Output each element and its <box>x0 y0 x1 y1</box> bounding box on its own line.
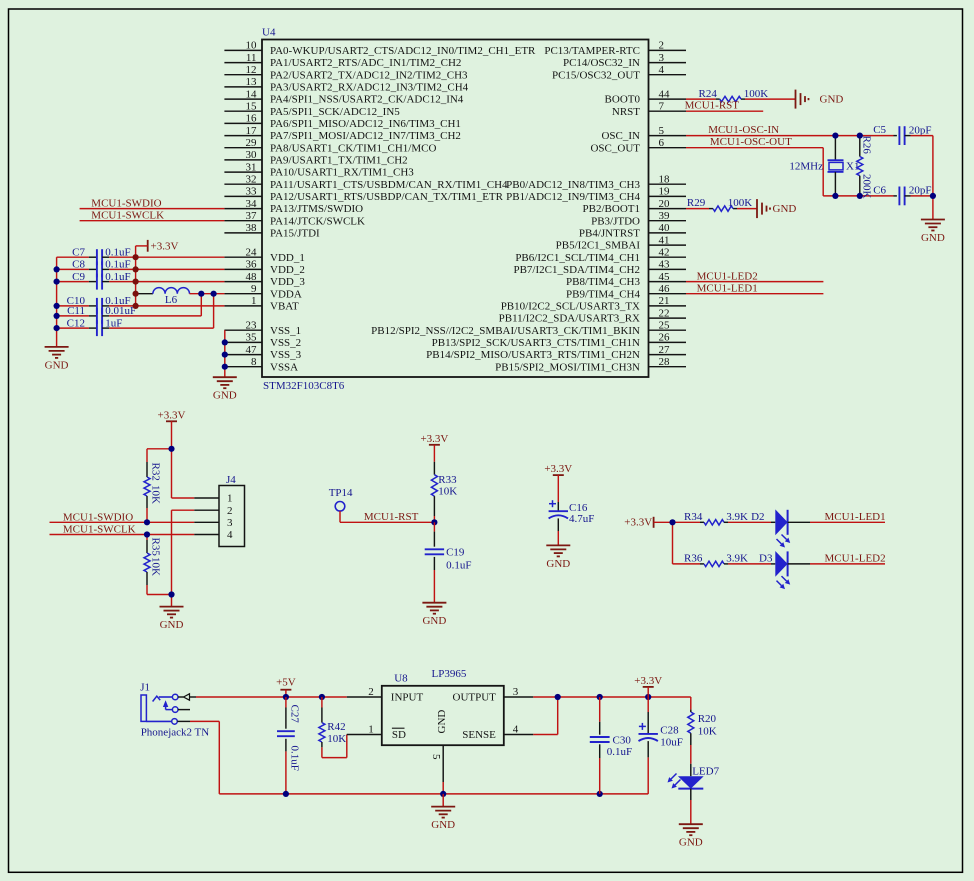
svg-text:5: 5 <box>430 754 442 760</box>
capacitor C8 <box>57 259 131 278</box>
svg-text:PB5/I2C1_SMBAI: PB5/I2C1_SMBAI <box>556 240 641 252</box>
wire net MCU1-LED2 (D3 output) <box>810 552 886 564</box>
svg-text:PB12/SPI2_NSS//I2C2_SMBAI/USAR: PB12/SPI2_NSS//I2C2_SMBAI/USART3_CK/TIM1… <box>371 325 640 337</box>
resistor R32 <box>144 449 162 523</box>
resistor R29 <box>687 197 752 212</box>
svg-text:36: 36 <box>246 259 258 271</box>
svg-text:J1: J1 <box>140 682 150 694</box>
junction gnd bus <box>54 303 60 309</box>
ground symbol (LED7) <box>679 824 703 849</box>
svg-text:LED7: LED7 <box>692 766 719 778</box>
U8 pin 2 (INPUT) <box>347 686 424 704</box>
U4 pin 2 (PC13) <box>544 40 686 57</box>
wire net MCU1-OSC-OUT <box>686 136 894 196</box>
svg-text:C7: C7 <box>72 246 85 258</box>
svg-text:22: 22 <box>659 307 670 319</box>
svg-text:30: 30 <box>246 149 258 161</box>
svg-text:GND: GND <box>160 619 184 631</box>
svg-text:D3: D3 <box>759 552 773 564</box>
U4 pin 33 (PA12) <box>224 186 503 203</box>
svg-text:28: 28 <box>659 356 671 368</box>
svg-text:18: 18 <box>659 173 671 185</box>
svg-text:D2: D2 <box>751 511 764 523</box>
svg-text:PC13/TAMPER-RTC: PC13/TAMPER-RTC <box>544 45 640 57</box>
svg-text:R26: R26 <box>861 136 873 155</box>
svg-text:MCU1-RST: MCU1-RST <box>364 511 419 523</box>
U4 pin 9 (VDDA) <box>224 283 301 300</box>
svg-text:7: 7 <box>659 100 665 112</box>
capacitor C30 <box>590 697 632 794</box>
U4 pin 46 (PB9) <box>566 283 686 300</box>
svg-text:34: 34 <box>246 198 258 210</box>
svg-text:27: 27 <box>659 344 671 356</box>
svg-text:48: 48 <box>246 271 258 283</box>
svg-text:PA15/JTDI: PA15/JTDI <box>270 228 320 240</box>
svg-text:OSC_IN: OSC_IN <box>601 130 640 142</box>
wire net MCU1-SWCLK (PA14) <box>80 210 225 222</box>
U8 pin 3 (OUTPUT) <box>453 686 534 704</box>
U4 pin 32 (PA11) <box>224 173 508 190</box>
wire osc caps to ground <box>911 136 933 220</box>
svg-text:C6: C6 <box>873 185 886 197</box>
ground symbol (BOOT0 pulldown) <box>796 90 844 109</box>
svg-text:VDD_1: VDD_1 <box>270 252 305 264</box>
svg-text:4.7uF: 4.7uF <box>569 513 594 525</box>
U4 pin 8 (VSSA) <box>224 356 298 373</box>
U4 pin 26 (PB13) <box>432 332 686 349</box>
svg-text:R29: R29 <box>687 197 706 209</box>
svg-text:11: 11 <box>246 52 257 64</box>
U4 pin 23 (VSS_1) <box>224 319 301 336</box>
junction C27 / rail <box>283 791 289 797</box>
ground symbol (J4) <box>160 607 184 632</box>
svg-text:39: 39 <box>659 210 671 222</box>
wire VDD_3 row <box>109 281 224 283</box>
svg-text:35: 35 <box>246 332 258 344</box>
U4 pin 24 (VDD_1) <box>224 246 304 263</box>
U4 pin 35 (VSS_2) <box>224 332 301 349</box>
svg-text:+5V: +5V <box>276 676 296 688</box>
svg-text:20: 20 <box>659 198 671 210</box>
ground symbol (C16) <box>546 545 570 570</box>
junction +3.3V bus <box>133 303 139 309</box>
svg-text:PB9/TIM4_CH4: PB9/TIM4_CH4 <box>566 288 640 300</box>
svg-text:U8: U8 <box>394 673 408 685</box>
U4 pin 47 (VSS_3) <box>224 344 301 361</box>
svg-text:29: 29 <box>246 137 258 149</box>
junction C30 / rail <box>597 791 603 797</box>
crystal X1 12MHz <box>789 136 859 196</box>
junction gnd bus <box>54 279 60 285</box>
power symbol +3.3V (regulator output) <box>634 675 662 697</box>
svg-text:BOOT0: BOOT0 <box>605 94 641 106</box>
svg-text:VBAT: VBAT <box>270 301 299 313</box>
junction gnd bus <box>54 325 60 331</box>
U4 pin 41 (PB5) <box>556 234 686 251</box>
svg-text:MCU1-LED1: MCU1-LED1 <box>697 283 758 295</box>
svg-text:R36: R36 <box>684 552 703 564</box>
capacitor C6 <box>873 185 931 206</box>
capacitor C5 <box>873 124 931 145</box>
U4 pin 17 (PA7) <box>224 125 461 142</box>
wire +5V input row <box>196 696 347 698</box>
junction R42 top <box>319 694 325 700</box>
resistor R35 <box>144 535 172 595</box>
svg-text:SENSE: SENSE <box>462 729 496 741</box>
U4 pin 22 (PB11) <box>499 307 686 324</box>
wire VDD_1 row <box>109 256 224 258</box>
junction +3.3V bus <box>133 266 139 272</box>
U4 pin 25 (PB12) <box>371 319 686 336</box>
U8 pin 4 (SENSE) <box>462 724 533 741</box>
U4 pin 48 (VDD_3) <box>224 271 305 288</box>
svg-text:TP14: TP14 <box>329 487 353 499</box>
U4 pin 45 (PB8) <box>566 271 686 288</box>
svg-text:PA0-WKUP/USART2_CTS/ADC12_IN0/: PA0-WKUP/USART2_CTS/ADC12_IN0/TIM2_CH1_E… <box>270 45 536 57</box>
svg-text:PA10/USART1_RX/TIM1_CH3: PA10/USART1_RX/TIM1_CH3 <box>270 167 414 179</box>
svg-text:R33: R33 <box>438 474 457 486</box>
svg-text:14: 14 <box>246 88 258 100</box>
svg-text:C8: C8 <box>72 259 85 271</box>
svg-text:MCU1-SWCLK: MCU1-SWCLK <box>91 210 164 222</box>
U4 pin 11 (PA1) <box>224 52 461 69</box>
svg-text:R42: R42 <box>327 721 345 733</box>
svg-text:J4: J4 <box>226 474 236 486</box>
wire +3.3V to J4 pin1 and R32 <box>147 421 194 498</box>
svg-text:PB1/ADC12_IN9/TIM3_CH4: PB1/ADC12_IN9/TIM3_CH4 <box>506 191 640 203</box>
svg-text:GND: GND <box>820 94 844 106</box>
svg-text:R32: R32 <box>150 463 162 481</box>
U4 pin 30 (PA9) <box>224 149 407 166</box>
svg-text:3: 3 <box>513 686 519 698</box>
svg-text:5: 5 <box>659 125 665 137</box>
U4 pin 40 (PB4) <box>579 222 686 239</box>
svg-text:100K: 100K <box>744 88 769 100</box>
connector J4 <box>194 474 244 547</box>
wire +3.3V to R33 <box>433 445 435 462</box>
connector J1 (phone jack) <box>140 682 209 739</box>
U4 pin 3 (PC14) <box>563 52 686 69</box>
LED LED7 <box>668 764 720 800</box>
svg-text:GND: GND <box>213 390 237 402</box>
svg-text:0.1uF: 0.1uF <box>289 746 301 771</box>
U4 pin 4 (PC15) <box>552 64 686 81</box>
inductor L6 <box>136 288 225 306</box>
junction osc-in / crystal <box>832 133 838 139</box>
resistor R42 <box>319 697 347 758</box>
svg-text:R24: R24 <box>699 88 718 100</box>
svg-text:PA6/SPI1_MISO/ADC12_IN6/TIM3_C: PA6/SPI1_MISO/ADC12_IN6/TIM3_CH1 <box>270 118 461 130</box>
resistor R36 <box>684 552 771 566</box>
svg-text:GND: GND <box>436 710 448 734</box>
svg-text:PB15/SPI2_MOSI/TIM1_CH3N: PB15/SPI2_MOSI/TIM1_CH3N <box>495 361 640 373</box>
U4 pin 1 (VBAT) <box>224 295 299 312</box>
svg-text:L6: L6 <box>165 294 178 306</box>
U4 pin 28 (PB15) <box>495 356 686 373</box>
U4 pin 36 (VDD_2) <box>224 259 304 276</box>
svg-text:10K: 10K <box>327 733 346 745</box>
capacitor C16 (polarized) <box>549 475 595 545</box>
svg-text:10K: 10K <box>150 485 162 504</box>
svg-text:Phonejack2 TN: Phonejack2 TN <box>141 727 210 739</box>
U4 pin 19 (PB1) <box>506 186 686 203</box>
svg-text:13: 13 <box>246 76 258 88</box>
svg-text:VSS_2: VSS_2 <box>270 337 301 349</box>
ground symbol (C19) <box>422 603 446 628</box>
U4 pin 6 (OSC_OUT) <box>590 137 686 154</box>
wire net MCU1-SWCLK (J4) <box>50 524 195 536</box>
U4 pin 39 (PB3) <box>591 210 686 227</box>
svg-text:+3.3V: +3.3V <box>151 241 179 253</box>
svg-text:19: 19 <box>659 186 671 198</box>
wire net MCU1-LED2 (PB8) <box>686 270 823 282</box>
svg-text:GND: GND <box>431 819 455 831</box>
svg-text:4: 4 <box>513 724 519 736</box>
svg-text:VSSA: VSSA <box>270 361 298 373</box>
junction C30 top <box>597 694 603 700</box>
resistor R20 <box>688 697 717 764</box>
junction +3.3V / C28 <box>645 694 651 700</box>
capacitor C9 <box>57 271 131 290</box>
svg-text:MCU1-SWCLK: MCU1-SWCLK <box>63 524 136 536</box>
svg-text:12MHz: 12MHz <box>789 161 823 173</box>
svg-text:PA1/USART2_RTS/ADC_IN1/TIM2_CH: PA1/USART2_RTS/ADC_IN1/TIM2_CH2 <box>270 57 461 69</box>
svg-text:GND: GND <box>45 359 69 371</box>
ground symbol (VSS) <box>213 377 237 402</box>
junction +5V / C27 <box>283 694 289 700</box>
svg-text:32: 32 <box>246 173 257 185</box>
svg-text:PB13/SPI2_SCK/USART3_CTS/TIM1_: PB13/SPI2_SCK/USART3_CTS/TIM1_CH1N <box>432 337 640 349</box>
LED D2 <box>751 509 810 547</box>
svg-text:INPUT: INPUT <box>391 692 424 704</box>
svg-text:9: 9 <box>251 283 257 295</box>
junction SWDIO / R32 <box>144 519 150 525</box>
svg-text:PC15/OSC32_OUT: PC15/OSC32_OUT <box>552 69 640 81</box>
svg-text:C5: C5 <box>873 124 886 136</box>
capacitor C19 <box>425 522 472 602</box>
wire net BOOT0 <box>686 98 796 100</box>
wire gnd bus (left) <box>56 257 58 347</box>
wire net MCU1-SWDIO (J4) <box>50 511 195 523</box>
svg-text:PA12/USART1_RTS/USBDP/CAN_TX/T: PA12/USART1_RTS/USBDP/CAN_TX/TIM1_ETR <box>270 191 504 203</box>
junction osc-out / crystal <box>832 193 838 199</box>
svg-text:PB2/BOOT1: PB2/BOOT1 <box>583 203 640 215</box>
wire J1 sleeve to ground rail <box>190 721 219 794</box>
junction VSSA <box>222 364 228 370</box>
svg-text:GND: GND <box>422 615 446 627</box>
svg-text:PB7/I2C1_SDA/TIM4_CH2: PB7/I2C1_SDA/TIM4_CH2 <box>513 264 640 276</box>
svg-text:100K: 100K <box>728 197 753 209</box>
svg-text:41: 41 <box>659 234 670 246</box>
svg-text:24: 24 <box>246 246 258 258</box>
test point TP14 <box>329 487 353 511</box>
svg-text:OSC_OUT: OSC_OUT <box>590 142 640 154</box>
svg-text:C19: C19 <box>446 547 465 559</box>
svg-text:VDD_2: VDD_2 <box>270 264 305 276</box>
junction sense/output <box>555 694 561 700</box>
svg-text:12: 12 <box>246 64 257 76</box>
svg-text:GND: GND <box>679 837 703 849</box>
svg-text:38: 38 <box>246 222 258 234</box>
U4 pin 29 (PA8) <box>224 137 436 154</box>
power symbol +3.3V (LEDs) <box>624 516 653 528</box>
resistor R33 <box>431 462 457 523</box>
capacitor C27 <box>277 697 301 794</box>
junction U8 gnd / rail <box>440 791 446 797</box>
svg-text:U4: U4 <box>262 27 276 39</box>
junction +3.3V bus <box>133 291 139 297</box>
wire ground rail <box>219 793 648 795</box>
power symbol +3.3V (R33) <box>420 433 448 445</box>
svg-text:31: 31 <box>246 161 257 173</box>
svg-text:PB8/TIM4_CH3: PB8/TIM4_CH3 <box>566 276 640 288</box>
U4 pin 20 (PB2) <box>583 198 686 215</box>
junction VSS_2 <box>222 339 228 345</box>
svg-text:43: 43 <box>659 259 671 271</box>
svg-text:42: 42 <box>659 246 670 258</box>
wire VDD_2 row <box>109 268 224 270</box>
wire +3.3V bus <box>136 246 148 306</box>
svg-text:PA3/USART2_RX/ADC12_IN3/TIM2_C: PA3/USART2_RX/ADC12_IN3/TIM2_CH4 <box>270 82 469 94</box>
svg-text:PB0/ADC12_IN8/TIM3_CH3: PB0/ADC12_IN8/TIM3_CH3 <box>506 179 640 191</box>
svg-text:VDDA: VDDA <box>270 288 302 300</box>
junction osc-in / R26 <box>857 133 863 139</box>
junction VDDA / C11 riser <box>198 291 204 297</box>
svg-text:+3.3V: +3.3V <box>544 463 572 475</box>
resistor R26 <box>857 136 873 199</box>
capacitor C12 <box>57 317 123 336</box>
ground symbol (U8) <box>431 794 455 831</box>
svg-text:PB11/I2C2_SDA/USART3_RX: PB11/I2C2_SDA/USART3_RX <box>499 313 640 325</box>
svg-text:10K: 10K <box>438 486 457 498</box>
power symbol +5V <box>276 676 296 697</box>
svg-text:PC14/OSC32_IN: PC14/OSC32_IN <box>563 57 640 69</box>
svg-text:VSS_1: VSS_1 <box>270 325 301 337</box>
svg-text:4: 4 <box>659 64 665 76</box>
U4 pin 34 (PA13) <box>224 198 363 215</box>
svg-text:46: 46 <box>659 283 671 295</box>
power symbol +3.3V (C16) <box>544 463 572 475</box>
junction gnd bus <box>54 313 60 319</box>
svg-text:33: 33 <box>246 186 258 198</box>
svg-text:OUTPUT: OUTPUT <box>453 692 497 704</box>
svg-text:23: 23 <box>246 319 258 331</box>
svg-text:GND: GND <box>546 558 570 570</box>
svg-text:R20: R20 <box>698 713 717 725</box>
svg-text:PA8/USART1_CK/TIM1_CH1/MCO: PA8/USART1_CK/TIM1_CH1/MCO <box>270 142 436 154</box>
svg-text:40: 40 <box>659 222 671 234</box>
U4 pin 16 (PA6) <box>224 113 461 130</box>
svg-text:PA13/JTMS/SWDIO: PA13/JTMS/SWDIO <box>270 203 363 215</box>
svg-text:MCU1-LED1: MCU1-LED1 <box>825 511 886 523</box>
U4 pin 37 (PA14) <box>224 210 365 227</box>
junction VDDA / C12 riser <box>211 291 217 297</box>
svg-text:3.9K: 3.9K <box>726 552 748 564</box>
U4 pin 18 (PB0) <box>506 173 686 190</box>
svg-text:C11: C11 <box>67 305 85 317</box>
U4 pin 31 (PA10) <box>224 161 414 178</box>
wire net MCU1-LED1 (D2 output) <box>810 511 886 523</box>
junction +3.3V bus <box>133 254 139 260</box>
power symbol +3.3V (decoupling bus) <box>148 240 179 253</box>
svg-text:MCU1-SWDIO: MCU1-SWDIO <box>91 198 161 210</box>
IC U4 (STM32F103C8T6 microcontroller) <box>224 27 686 393</box>
wire net MCU1-RST (TP14) <box>340 511 434 523</box>
U4 pin 13 (PA3) <box>224 76 468 93</box>
resistor R24 <box>699 88 769 102</box>
J4 pin 4 <box>194 529 233 541</box>
junction osc-out / R26 <box>857 193 863 199</box>
svg-text:C9: C9 <box>72 271 85 283</box>
svg-text:MCU1-LED2: MCU1-LED2 <box>825 552 886 564</box>
svg-text:+3.3V: +3.3V <box>624 516 652 528</box>
wire net MCU1-OSC-IN <box>686 124 894 136</box>
wire U8 output row <box>533 696 691 698</box>
svg-text:PA5/SPI1_SCK/ADC12_IN5: PA5/SPI1_SCK/ADC12_IN5 <box>270 106 400 118</box>
svg-text:15: 15 <box>246 100 258 112</box>
ground symbol (decoupling bank) <box>45 347 69 372</box>
svg-text:16: 16 <box>246 113 258 125</box>
junction R35 / gnd riser <box>168 591 174 597</box>
svg-text:PA7/SPI1_MOSI/ADC12_IN7/TIM3_C: PA7/SPI1_MOSI/ADC12_IN7/TIM3_CH2 <box>270 130 461 142</box>
svg-text:10uF: 10uF <box>660 737 683 749</box>
svg-text:PA14/JTCK/SWCLK: PA14/JTCK/SWCLK <box>270 215 365 227</box>
svg-text:2: 2 <box>659 40 665 52</box>
capacitor C11 <box>57 305 137 324</box>
ground symbol (BOOT1 pulldown) <box>757 199 796 218</box>
capacitor C7 <box>57 246 131 265</box>
svg-text:3.9K: 3.9K <box>726 511 748 523</box>
svg-text:0.1uF: 0.1uF <box>607 746 632 758</box>
junction SWCLK / R35 <box>144 531 150 537</box>
wire SENSE to output <box>533 697 557 735</box>
svg-text:0.1uF: 0.1uF <box>446 560 471 572</box>
wire net MCU1-RST (NRST pin) <box>685 100 764 112</box>
U4 pin 38 (PA15) <box>224 222 320 239</box>
U4 pin 12 (PA2) <box>224 64 468 81</box>
svg-text:6: 6 <box>659 137 665 149</box>
svg-text:PA4/SPI1_NSS/USART2_CK/ADC12_I: PA4/SPI1_NSS/USART2_CK/ADC12_IN4 <box>270 94 464 106</box>
ground symbol (oscillator) <box>921 220 945 245</box>
svg-text:10K: 10K <box>150 557 162 576</box>
U8 pin 5 (GND) <box>430 710 448 794</box>
svg-text:1: 1 <box>368 724 374 736</box>
junction gnd bus <box>54 266 60 272</box>
svg-text:25: 25 <box>659 319 671 331</box>
wire VBAT row <box>109 305 224 307</box>
svg-text:37: 37 <box>246 210 258 222</box>
svg-text:26: 26 <box>659 332 671 344</box>
svg-text:45: 45 <box>659 271 671 283</box>
svg-text:+3.3V: +3.3V <box>420 433 448 445</box>
J4 pin 3 <box>194 517 233 529</box>
svg-text:3: 3 <box>227 517 233 529</box>
svg-text:4: 4 <box>227 529 233 541</box>
svg-text:47: 47 <box>246 344 258 356</box>
svg-text:2: 2 <box>368 686 374 698</box>
LED D3 <box>759 551 810 589</box>
svg-text:MCU1-OSC-OUT: MCU1-OSC-OUT <box>710 136 792 148</box>
svg-text:+3.3V: +3.3V <box>158 409 186 421</box>
junction VSS_3 <box>222 352 228 358</box>
U4 pin 43 (PB7) <box>513 259 686 276</box>
svg-text:10K: 10K <box>698 726 717 738</box>
U4 pin 15 (PA5) <box>224 100 400 117</box>
wire J4 pin2 to ground <box>172 510 195 606</box>
junction C6 / gnd riser <box>930 193 936 199</box>
wire +3.3V to R34/R36 <box>654 522 700 564</box>
svg-text:MCU1-SWDIO: MCU1-SWDIO <box>63 511 133 523</box>
